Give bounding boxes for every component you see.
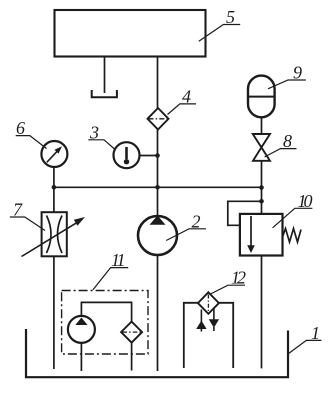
wire right branch vertical (accumulator to tank) bbox=[261, 117, 263, 368]
breather filter 12 bbox=[198, 292, 219, 314]
connector inside 11 bbox=[81, 302, 131, 321]
wire throttle 7 to tank bbox=[53, 256, 55, 369]
pressure gauge 6 bbox=[41, 141, 67, 167]
filter F1 (4) bbox=[148, 108, 169, 130]
heat exchanger unit 5 bbox=[55, 10, 206, 57]
label 1 bbox=[289, 340, 322, 353]
svg-text:4: 4 bbox=[182, 86, 191, 106]
svg-text:7: 7 bbox=[13, 200, 23, 220]
label 2 bbox=[166, 229, 206, 241]
svg-text:6: 6 bbox=[16, 118, 25, 138]
wire gauge 3 connector bbox=[139, 155, 158, 157]
throttle valve 7 bbox=[42, 212, 67, 256]
wire horizontal bus bbox=[54, 186, 262, 188]
label 8 bbox=[265, 149, 297, 157]
thermometer 3 bbox=[114, 142, 140, 168]
svg-text:5: 5 bbox=[226, 7, 235, 27]
junction node pilot tap bbox=[259, 199, 264, 204]
label 12 bbox=[210, 285, 246, 294]
label 10 bbox=[273, 208, 313, 228]
junction node bus-right bbox=[259, 185, 264, 190]
air-flow arrow down bbox=[213, 308, 215, 321]
svg-text:1: 1 bbox=[311, 323, 320, 343]
label 5 bbox=[199, 25, 240, 42]
sub-unit 11 boundary bbox=[62, 291, 148, 355]
wire drain drop from unit 5 bbox=[104, 57, 106, 94]
label 11 bbox=[93, 268, 128, 290]
filter of sub-unit 11 bbox=[121, 322, 142, 343]
svg-text:3: 3 bbox=[89, 122, 99, 142]
spring of valve 10 bbox=[283, 229, 302, 243]
svg-text:8: 8 bbox=[283, 131, 292, 151]
label 3 bbox=[88, 140, 114, 149]
svg-text:2: 2 bbox=[192, 211, 201, 231]
relief valve 10 bbox=[240, 214, 283, 256]
wire main vertical line from unit 5 to tank bbox=[157, 57, 159, 372]
pump of sub-unit 11 bbox=[68, 316, 95, 343]
air-flow arrow up bbox=[200, 310, 202, 324]
junction node gauge 3 tap bbox=[155, 153, 160, 158]
junction node bus-main bbox=[155, 185, 160, 190]
breather box 12 bbox=[184, 303, 233, 368]
pump 2 bbox=[138, 216, 177, 255]
label 4 bbox=[168, 104, 197, 115]
svg-text:9: 9 bbox=[293, 63, 302, 83]
junction node bus-left bbox=[52, 185, 57, 190]
wire filter 11 to tank bbox=[131, 343, 133, 371]
label 6 bbox=[16, 136, 47, 149]
svg-text:11: 11 bbox=[111, 250, 124, 270]
shut-off valve 8 bbox=[253, 134, 270, 147]
relief valve 10 pilot line bbox=[228, 201, 262, 225]
label 9 bbox=[268, 80, 306, 89]
tank 1 bbox=[26, 329, 288, 377]
label 7 bbox=[10, 217, 45, 231]
wire gauge 6 stem to throttle 7 bbox=[53, 167, 55, 213]
drain tank symbol under unit 5 bbox=[92, 90, 117, 97]
wire pump 11 to tank bbox=[80, 343, 82, 371]
accumulator 9 bbox=[248, 76, 275, 118]
